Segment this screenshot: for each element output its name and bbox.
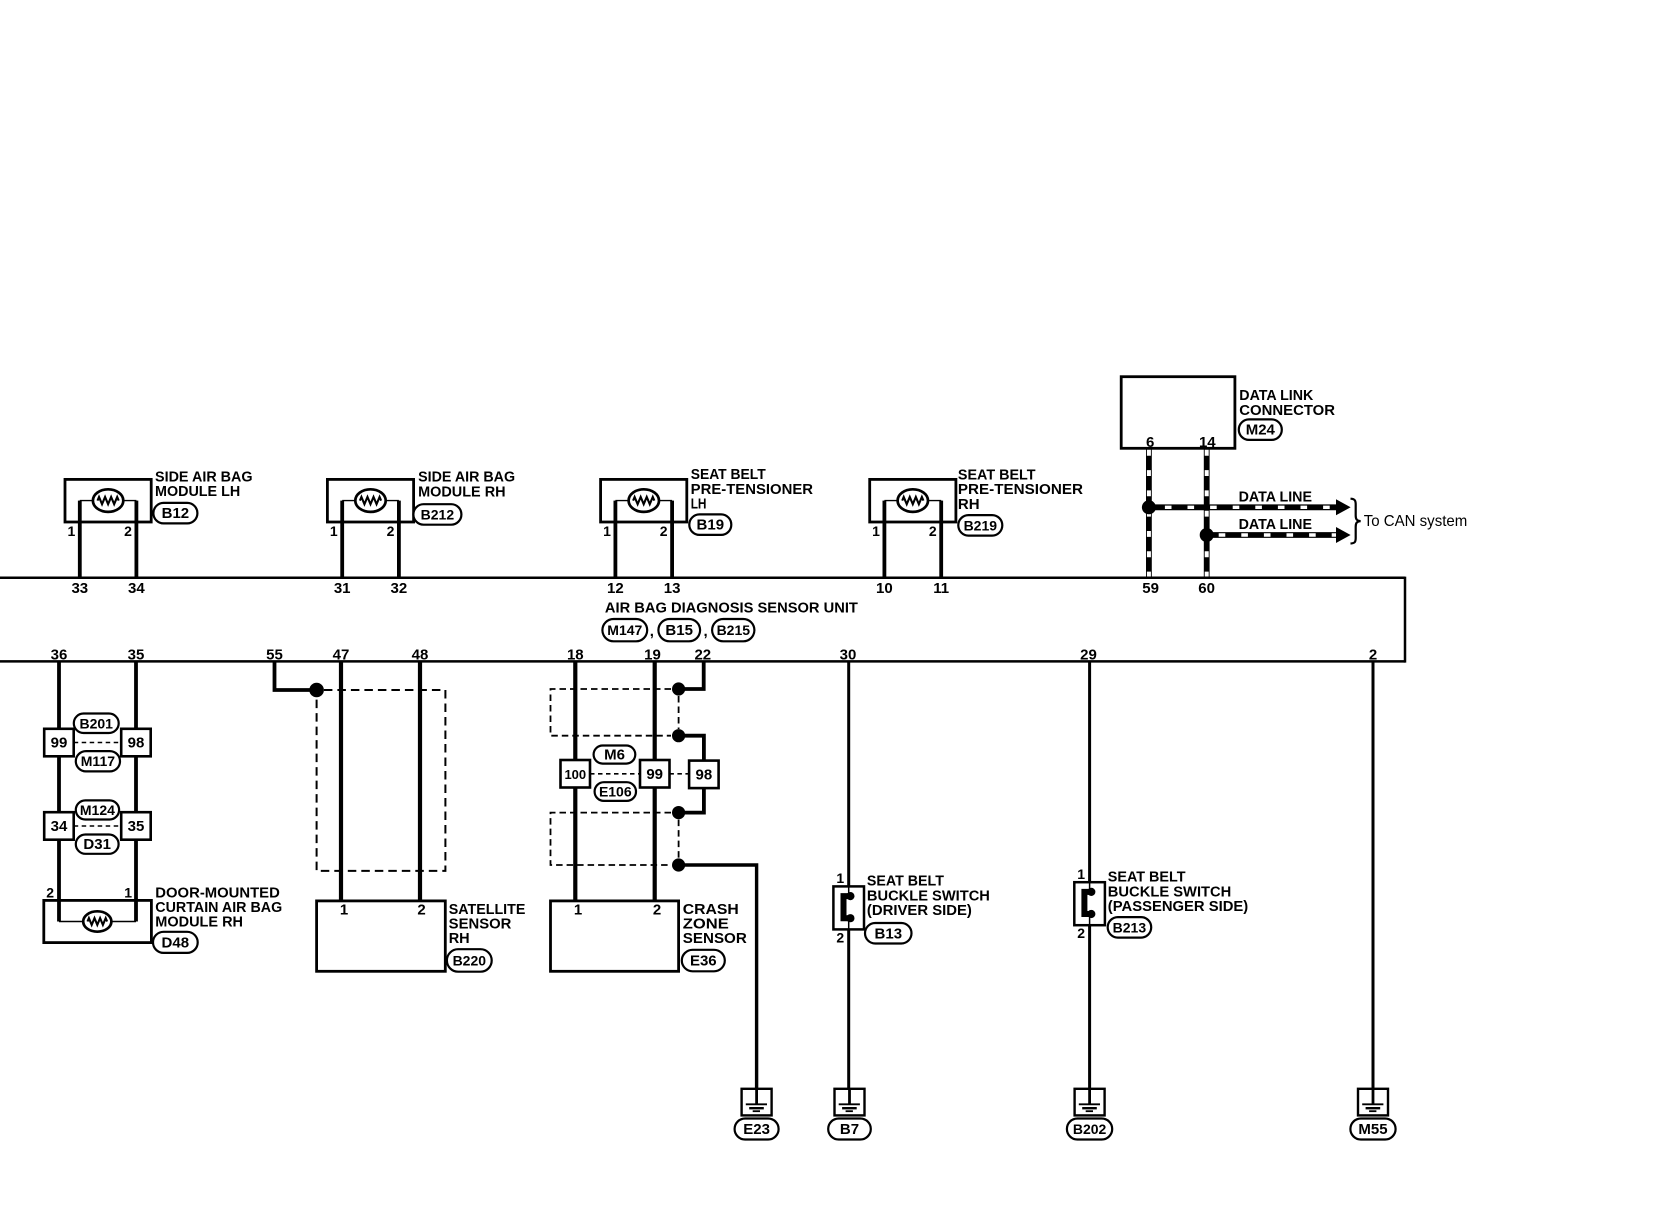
dashed connector link 100-99 bbox=[590, 773, 640, 775]
svg-text:36: 36 bbox=[51, 647, 68, 664]
unit pin 60 bbox=[1198, 580, 1215, 597]
svg-text:SEAT BELT: SEAT BELT bbox=[958, 468, 1036, 484]
svg-text:98: 98 bbox=[128, 735, 145, 752]
svg-text:,: , bbox=[704, 623, 708, 640]
svg-text:1: 1 bbox=[603, 523, 611, 539]
label side air bag module LH bbox=[155, 469, 253, 500]
svg-text:18: 18 bbox=[567, 647, 584, 664]
air bag diagnosis sensor unit band top edge bbox=[0, 577, 1405, 580]
unit pin 2 bbox=[1369, 647, 1377, 664]
wire B19 pin1 to unit bbox=[614, 522, 618, 578]
connector oval E106 bbox=[595, 782, 636, 801]
svg-text:1: 1 bbox=[574, 902, 582, 919]
connector pin square 34 bbox=[44, 812, 73, 840]
arrowhead data line 2 bbox=[1336, 527, 1351, 543]
unit pin 31 bbox=[334, 580, 351, 597]
svg-text:35: 35 bbox=[128, 818, 145, 835]
connector oval M147 bbox=[602, 619, 647, 641]
svg-text:M55: M55 bbox=[1358, 1121, 1387, 1138]
junction node shield 3 bbox=[672, 806, 685, 819]
svg-text:33: 33 bbox=[71, 580, 88, 597]
dashed connector link 34-35 bbox=[74, 825, 122, 827]
ground symbol E23 bbox=[742, 1089, 772, 1116]
svg-text:19: 19 bbox=[644, 647, 661, 664]
svg-text:B219: B219 bbox=[964, 517, 998, 533]
svg-text:2: 2 bbox=[46, 884, 54, 900]
svg-text:MODULE RH: MODULE RH bbox=[418, 484, 506, 500]
label side air bag module RH bbox=[418, 470, 515, 501]
svg-text:1: 1 bbox=[124, 884, 132, 900]
side air bag module RH outer box bbox=[327, 479, 413, 522]
wire B219 pin2 to unit bbox=[939, 522, 943, 578]
pin labels 1 and 2 of B13 bbox=[836, 870, 844, 945]
connector pin square 100 bbox=[561, 760, 591, 788]
svg-text:SEAT BELT: SEAT BELT bbox=[867, 874, 944, 890]
svg-text:B12: B12 bbox=[162, 505, 190, 522]
label DATA LINE 2 bbox=[1239, 517, 1313, 533]
svg-text:DATA LINE: DATA LINE bbox=[1239, 489, 1313, 505]
svg-text:31: 31 bbox=[334, 580, 351, 597]
svg-text:LH: LH bbox=[691, 497, 707, 513]
connector oval B219 bbox=[958, 515, 1002, 536]
unit pin 36 bbox=[51, 647, 68, 664]
striped CAN wire DLC pin 6 to unit pin 59 bbox=[1146, 448, 1152, 578]
wire B12 pin1 to unit bbox=[78, 522, 82, 578]
connector oval M24 bbox=[1239, 419, 1282, 440]
comma separator 2 bbox=[704, 623, 708, 640]
wire unit to B13 bbox=[847, 662, 850, 886]
side air bag module LH outer box bbox=[65, 479, 151, 522]
wire unit pin 2 to ground M55 bbox=[1372, 662, 1375, 1089]
svg-text:E23: E23 bbox=[743, 1121, 770, 1138]
label seat belt buckle switch passenger side bbox=[1108, 870, 1249, 915]
satellite sensor pin labels 1 2 bbox=[340, 902, 426, 919]
pin labels 1 and 2 of B213 bbox=[1077, 866, 1085, 941]
wire unit pin 47 to satellite sensor pin 1 bbox=[339, 662, 343, 901]
seat belt buckle switch B13 box bbox=[833, 886, 864, 929]
svg-text:B213: B213 bbox=[1113, 919, 1147, 935]
wire connector 98 down to shield junction 3 bbox=[679, 788, 704, 813]
wire unit pin 48 to satellite sensor pin 2 bbox=[418, 662, 422, 901]
svg-text:B202: B202 bbox=[1073, 1121, 1107, 1137]
svg-text:SENSOR: SENSOR bbox=[449, 917, 512, 933]
svg-text:30: 30 bbox=[840, 647, 857, 664]
unit pin 59 bbox=[1142, 580, 1159, 597]
connector oval D48 bbox=[153, 932, 198, 953]
junction node shield to 98 bbox=[672, 729, 685, 742]
unit pin 35 bbox=[128, 647, 145, 664]
svg-text:CURTAIN AIR BAG: CURTAIN AIR BAG bbox=[155, 900, 282, 916]
connector pin square 98 bbox=[121, 729, 151, 757]
curly brace to CAN bbox=[1351, 499, 1361, 544]
svg-text:(DRIVER SIDE): (DRIVER SIDE) bbox=[867, 903, 972, 919]
svg-text:22: 22 bbox=[694, 647, 711, 664]
label DATA LINE 1 bbox=[1239, 489, 1313, 505]
comma separator 1 bbox=[650, 623, 654, 640]
unit pin 34 bbox=[128, 580, 145, 597]
wire B212 pin1 to unit bbox=[340, 522, 344, 578]
wire 35 down to D48 pin 1 bbox=[134, 839, 138, 900]
wire B213 to ground bbox=[1088, 925, 1091, 1089]
svg-text:1: 1 bbox=[836, 870, 844, 886]
crash zone sensor pin labels 1 2 bbox=[574, 902, 661, 919]
wire B13 to ground bbox=[847, 929, 850, 1088]
connector pin square 35 bbox=[121, 812, 151, 840]
svg-text:,: , bbox=[650, 623, 654, 640]
svg-text:E36: E36 bbox=[690, 953, 717, 970]
svg-text:59: 59 bbox=[1142, 580, 1159, 597]
wire unit pin 55 elbow to shield junction bbox=[275, 662, 317, 690]
satellite sensor RH box bbox=[317, 901, 446, 971]
svg-text:1: 1 bbox=[330, 523, 338, 539]
wire unit pin 35 down to connector 98 bbox=[134, 662, 138, 729]
junction node shield 55 bbox=[309, 683, 324, 698]
svg-text:1: 1 bbox=[68, 523, 76, 539]
label crash zone sensor bbox=[683, 902, 748, 947]
label seat belt pre-tensioner LH bbox=[691, 467, 814, 512]
unit pin 18 bbox=[567, 647, 584, 664]
door-mounted curtain air bag module RH box bbox=[44, 900, 152, 942]
wire 34 down to D48 pin 2 bbox=[57, 839, 61, 900]
unit pin 19 bbox=[644, 647, 661, 664]
dashed connector link 99-98 bbox=[669, 773, 689, 775]
svg-text:B220: B220 bbox=[453, 953, 487, 969]
svg-text:ZONE: ZONE bbox=[683, 917, 729, 933]
striped CAN wire DLC pin 14 to unit pin 60 bbox=[1204, 448, 1210, 578]
unit pin 33 bbox=[71, 580, 88, 597]
svg-text:98: 98 bbox=[696, 767, 713, 784]
label air bag diagnosis sensor unit bbox=[605, 600, 858, 616]
connector oval B220 bbox=[447, 949, 492, 972]
svg-text:35: 35 bbox=[128, 647, 145, 664]
connector oval B215 bbox=[712, 619, 754, 641]
connector oval M117 bbox=[76, 751, 120, 771]
svg-text:SEAT BELT: SEAT BELT bbox=[1108, 870, 1186, 886]
svg-text:2: 2 bbox=[660, 523, 668, 539]
wire shield to ground E23 bbox=[679, 865, 757, 1089]
ground connector oval B7 bbox=[828, 1119, 871, 1140]
svg-text:60: 60 bbox=[1198, 580, 1215, 597]
svg-text:2: 2 bbox=[124, 523, 132, 539]
svg-text:2: 2 bbox=[836, 929, 844, 945]
pin labels 1 and 2 of B212 bbox=[330, 523, 395, 539]
svg-text:BUCKLE SWITCH: BUCKLE SWITCH bbox=[1108, 884, 1232, 900]
ground connector oval B202 bbox=[1067, 1119, 1112, 1140]
svg-text:BUCKLE SWITCH: BUCKLE SWITCH bbox=[867, 888, 990, 904]
wire unit pin 36 down to connector 99 bbox=[57, 662, 61, 729]
unit pin 13 bbox=[664, 580, 681, 597]
connector oval E36 bbox=[682, 950, 725, 972]
unit pin 55 bbox=[266, 647, 283, 664]
svg-text:AIR BAG DIAGNOSIS SENSOR UNIT: AIR BAG DIAGNOSIS SENSOR UNIT bbox=[605, 600, 858, 616]
data line 2 striped wire bbox=[1207, 532, 1337, 538]
connector pin square 99 of E106 bbox=[640, 760, 670, 788]
svg-text:MODULE LH: MODULE LH bbox=[155, 484, 240, 500]
air bag diagnosis sensor unit band bottom edge bbox=[0, 660, 1405, 663]
svg-text:M124: M124 bbox=[80, 802, 115, 818]
unit pin 29 bbox=[1080, 647, 1097, 664]
svg-text:B201: B201 bbox=[79, 715, 113, 731]
wire unit to B213 bbox=[1088, 662, 1091, 882]
connector oval B12 bbox=[153, 503, 197, 524]
shield dashed loop lower bbox=[551, 813, 679, 865]
ground connector oval E23 bbox=[735, 1119, 779, 1140]
shield dashed box satellite sensor bbox=[317, 690, 446, 871]
connector oval B15 bbox=[658, 619, 700, 641]
arrowhead data line 1 bbox=[1336, 499, 1351, 515]
svg-text:B7: B7 bbox=[840, 1121, 859, 1138]
svg-text:SEAT BELT: SEAT BELT bbox=[691, 467, 766, 483]
svg-text:B215: B215 bbox=[717, 622, 751, 638]
svg-text:RH: RH bbox=[958, 497, 980, 513]
connector oval M124 bbox=[76, 800, 119, 819]
pin labels 1 and 2 of B12 bbox=[68, 523, 133, 539]
svg-text:100: 100 bbox=[564, 767, 586, 782]
svg-text:34: 34 bbox=[51, 818, 68, 835]
svg-text:DATA LINE: DATA LINE bbox=[1239, 517, 1313, 533]
svg-text:E106: E106 bbox=[599, 784, 632, 800]
svg-text:12: 12 bbox=[607, 580, 624, 597]
svg-text:M117: M117 bbox=[81, 753, 115, 769]
svg-text:RH: RH bbox=[449, 931, 470, 947]
label data link connector bbox=[1239, 388, 1335, 419]
unit pin 10 bbox=[876, 580, 893, 597]
svg-text:10: 10 bbox=[876, 580, 893, 597]
connector pin square 98 of E106 bbox=[689, 761, 719, 789]
svg-text:D48: D48 bbox=[162, 934, 190, 951]
svg-text:2: 2 bbox=[1369, 647, 1377, 664]
wire unit pin 19 to crash zone sensor pin 2 bbox=[653, 662, 657, 901]
data line 1 striped wire bbox=[1149, 504, 1337, 510]
svg-text:B13: B13 bbox=[875, 925, 903, 942]
label door-mounted curtain air bag module RH bbox=[155, 885, 282, 930]
unit pin 30 bbox=[840, 647, 857, 664]
svg-text:CONNECTOR: CONNECTOR bbox=[1239, 403, 1335, 419]
unit pin 11 bbox=[933, 580, 949, 597]
label To CAN system bbox=[1364, 513, 1468, 530]
svg-text:(PASSENGER SIDE): (PASSENGER SIDE) bbox=[1108, 899, 1249, 915]
pin labels 1 and 2 of B219 bbox=[872, 523, 937, 539]
svg-text:1: 1 bbox=[340, 902, 348, 919]
connector oval B213 bbox=[1108, 917, 1152, 938]
ground symbol M55 bbox=[1358, 1089, 1388, 1116]
svg-text:2: 2 bbox=[653, 902, 661, 919]
shield dashed loop upper bbox=[551, 689, 679, 736]
unit pin 47 bbox=[333, 647, 350, 664]
DLC pin 14 label bbox=[1199, 434, 1216, 451]
svg-text:55: 55 bbox=[266, 647, 283, 664]
wire B19 pin2 to unit bbox=[670, 522, 674, 578]
svg-text:SATELLITE: SATELLITE bbox=[449, 902, 526, 918]
svg-text:1: 1 bbox=[872, 523, 880, 539]
svg-text:SENSOR: SENSOR bbox=[683, 931, 748, 947]
unit pin 22 bbox=[694, 647, 711, 664]
svg-text:PRE-TENSIONER: PRE-TENSIONER bbox=[958, 482, 1084, 498]
svg-text:B212: B212 bbox=[421, 507, 455, 523]
squib resistor inside B219 bbox=[884, 489, 941, 522]
seat belt pre-tensioner LH outer box bbox=[601, 479, 687, 522]
ground symbol B7 bbox=[835, 1089, 865, 1116]
ground symbol B202 bbox=[1075, 1089, 1105, 1116]
svg-text:B15: B15 bbox=[665, 622, 693, 639]
connector oval M6 bbox=[594, 746, 636, 764]
junction node shield 4 bbox=[672, 858, 685, 871]
wire 98 to 35 bbox=[134, 756, 138, 813]
connector oval D31 bbox=[76, 835, 119, 854]
label satellite sensor RH bbox=[449, 902, 526, 947]
svg-text:99: 99 bbox=[51, 735, 68, 752]
label seat belt buckle switch driver side bbox=[867, 874, 990, 919]
svg-text:DOOR-MOUNTED: DOOR-MOUNTED bbox=[155, 885, 279, 901]
connector pin square 99 bbox=[44, 729, 73, 757]
svg-text:29: 29 bbox=[1080, 647, 1097, 664]
wire B219 pin1 to unit bbox=[883, 522, 887, 578]
svg-text:SIDE AIR BAG: SIDE AIR BAG bbox=[418, 470, 515, 486]
buckle switch contact symbol B213 bbox=[1084, 882, 1095, 925]
svg-text:To CAN system: To CAN system bbox=[1364, 513, 1468, 530]
svg-text:2: 2 bbox=[417, 902, 425, 919]
svg-text:48: 48 bbox=[412, 647, 429, 664]
pin labels 1 and 2 of B19 bbox=[603, 523, 668, 539]
svg-text:MODULE RH: MODULE RH bbox=[155, 915, 243, 931]
connector oval B19 bbox=[689, 514, 731, 535]
connector oval B212 bbox=[413, 504, 461, 525]
seat belt pre-tensioner RH outer box bbox=[870, 479, 956, 522]
data link connector M24 box bbox=[1121, 377, 1235, 449]
wire 99 to 34 bbox=[57, 756, 61, 813]
wire unit pin 22 elbow to shield junction bbox=[679, 662, 704, 689]
DLC pin 6 label bbox=[1146, 434, 1154, 451]
svg-text:2: 2 bbox=[387, 523, 395, 539]
wire B12 pin2 to unit bbox=[134, 522, 138, 578]
crash zone sensor box bbox=[551, 901, 679, 971]
junction node shield top bbox=[672, 682, 685, 695]
label seat belt pre-tensioner RH bbox=[958, 468, 1084, 513]
wire B212 pin2 to unit bbox=[397, 522, 401, 578]
buckle switch contact symbol B13 bbox=[844, 886, 855, 929]
svg-text:13: 13 bbox=[664, 580, 681, 597]
svg-text:2: 2 bbox=[1077, 925, 1085, 941]
svg-text:1: 1 bbox=[1077, 866, 1085, 882]
svg-text:SIDE AIR BAG: SIDE AIR BAG bbox=[155, 469, 253, 485]
squib resistor inside D48 bbox=[59, 900, 136, 931]
seat belt buckle switch B213 box bbox=[1074, 882, 1105, 925]
unit pin 32 bbox=[391, 580, 408, 597]
svg-text:B19: B19 bbox=[697, 517, 725, 534]
squib resistor inside B212 bbox=[342, 489, 399, 522]
unit pin 48 bbox=[412, 647, 429, 664]
svg-text:99: 99 bbox=[646, 766, 663, 783]
ground connector oval M55 bbox=[1350, 1119, 1395, 1140]
wire unit pin 18 to crash zone sensor pin 1 bbox=[573, 662, 577, 901]
squib resistor inside B12 bbox=[80, 489, 137, 522]
junction node on CAN line pin 14 bbox=[1200, 528, 1214, 542]
svg-text:M6: M6 bbox=[604, 747, 625, 764]
svg-text:2: 2 bbox=[929, 523, 937, 539]
squib resistor inside B19 bbox=[615, 489, 672, 522]
svg-text:D31: D31 bbox=[83, 836, 111, 853]
junction node on CAN line pin 6 bbox=[1142, 500, 1156, 514]
connector oval B13 bbox=[865, 923, 912, 944]
svg-text:PRE-TENSIONER: PRE-TENSIONER bbox=[691, 482, 814, 498]
svg-text:34: 34 bbox=[128, 580, 145, 597]
connector oval B201 bbox=[74, 714, 119, 734]
svg-text:M24: M24 bbox=[1246, 422, 1276, 439]
svg-text:DATA LINK: DATA LINK bbox=[1239, 388, 1314, 404]
unit pin 12 bbox=[607, 580, 624, 597]
wire shield junction to connector 98 bbox=[679, 736, 704, 761]
svg-text:M147: M147 bbox=[607, 622, 642, 638]
air bag diagnosis sensor unit band right edge bbox=[1404, 577, 1407, 663]
svg-text:47: 47 bbox=[333, 647, 350, 664]
svg-text:CRASH: CRASH bbox=[683, 902, 739, 918]
svg-text:32: 32 bbox=[391, 580, 408, 597]
pin labels 2 and 1 of D48 bbox=[46, 884, 132, 900]
dashed connector link 99-98 bbox=[74, 742, 122, 744]
svg-text:11: 11 bbox=[933, 580, 949, 597]
